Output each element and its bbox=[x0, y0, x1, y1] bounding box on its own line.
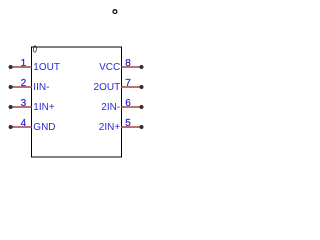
svg-text:VCC: VCC bbox=[99, 62, 120, 73]
svg-text:2: 2 bbox=[21, 78, 27, 89]
svg-text:2IN+: 2IN+ bbox=[99, 122, 121, 133]
svg-text:1: 1 bbox=[21, 58, 27, 69]
svg-text:2IN-: 2IN- bbox=[101, 102, 120, 113]
svg-text:8: 8 bbox=[125, 58, 131, 69]
svg-text:2OUT: 2OUT bbox=[94, 82, 121, 93]
svg-text:3: 3 bbox=[21, 98, 27, 109]
svg-text:IIN-: IIN- bbox=[33, 82, 49, 93]
svg-text:7: 7 bbox=[125, 78, 131, 89]
svg-text:GND: GND bbox=[33, 122, 55, 133]
svg-text:4: 4 bbox=[21, 118, 27, 129]
svg-text:5: 5 bbox=[125, 118, 131, 129]
svg-text:1OUT: 1OUT bbox=[33, 62, 60, 73]
svg-text:6: 6 bbox=[125, 98, 131, 109]
svg-text:0: 0 bbox=[33, 43, 37, 54]
svg-text:1IN+: 1IN+ bbox=[33, 102, 55, 113]
